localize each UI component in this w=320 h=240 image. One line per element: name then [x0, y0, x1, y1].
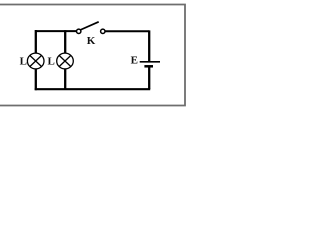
switch left terminal: [77, 29, 81, 33]
svg-text:L: L: [48, 56, 55, 68]
switch blade: [80, 22, 98, 30]
wire: lamp1 upper vertical: [35, 30, 37, 53]
wire: lamp2 upper vertical: [64, 30, 66, 53]
battery short plate: [144, 65, 153, 68]
wire: right lower vertical: [148, 66, 150, 89]
lamp L1 filament cross: [30, 56, 42, 67]
lamp L2 bulb circle: [57, 53, 74, 69]
switch K: [77, 22, 106, 47]
lamp L2: [48, 53, 74, 69]
svg-text:L: L: [20, 55, 27, 67]
battery long plate: [140, 61, 160, 63]
wire: bottom segment: [35, 88, 151, 90]
lamp L2 filament cross: [59, 56, 71, 67]
lamp L1 bulb circle: [27, 53, 44, 69]
wire: top right segment: [105, 30, 149, 32]
lamp L1: [20, 53, 44, 69]
wire: right upper vertical: [148, 30, 150, 61]
wire: lamp2 lower vertical: [64, 69, 66, 90]
svg-text:K: K: [87, 35, 96, 47]
wire: top left segment: [36, 30, 76, 32]
wire: lamp1 lower vertical: [35, 69, 37, 91]
battery E: [131, 55, 160, 67]
svg-text:E: E: [131, 55, 138, 67]
switch right terminal: [101, 29, 105, 33]
